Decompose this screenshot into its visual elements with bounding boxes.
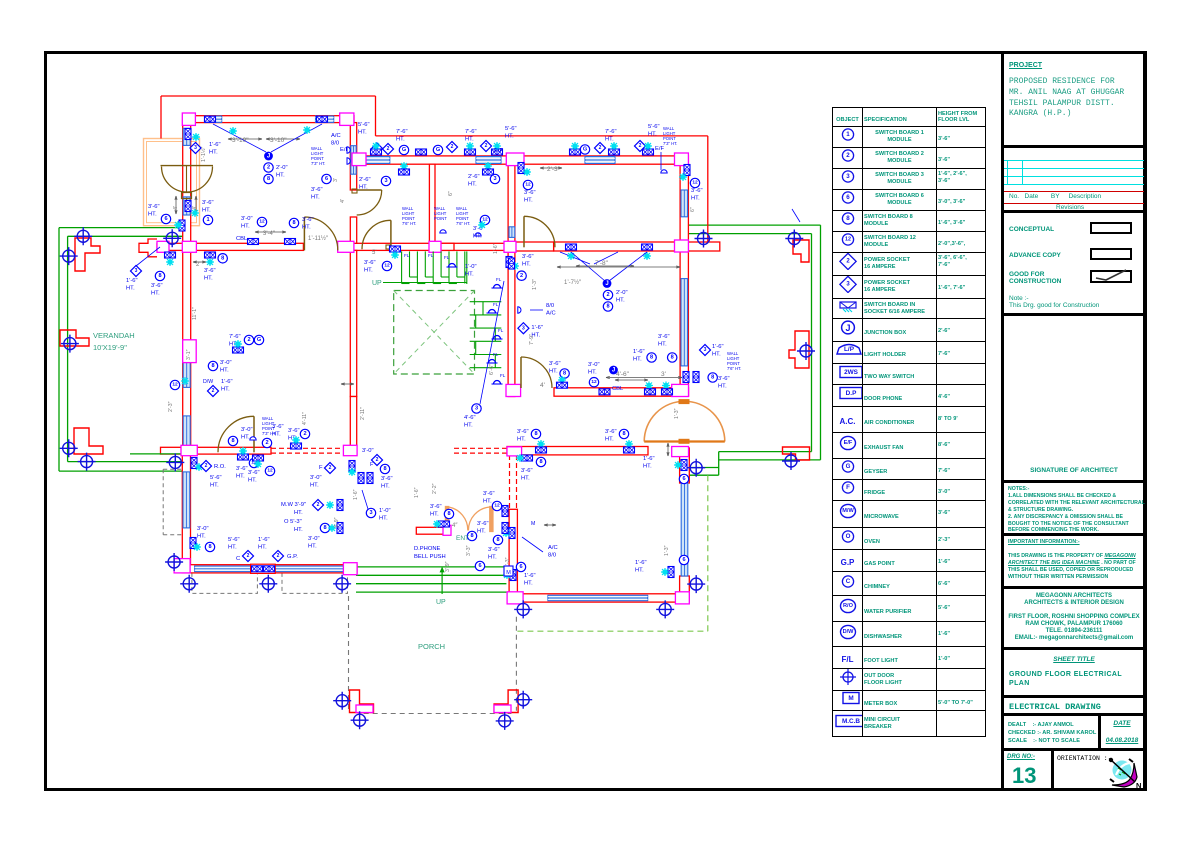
column marker <box>785 230 803 248</box>
fan point <box>537 440 545 448</box>
stair treads lower <box>470 314 502 316</box>
wall: drawing room right <box>680 251 688 396</box>
svg-text:3: 3 <box>135 268 138 274</box>
symbol: switch board 8 <box>218 254 227 263</box>
column marker <box>259 575 277 593</box>
door room A <box>524 216 555 247</box>
symbol: power socket 2 <box>207 385 218 396</box>
legend table <box>832 107 985 737</box>
svg-text:HT.: HT. <box>588 369 597 375</box>
svg-text:BELL PUSH: BELL PUSH <box>414 554 446 560</box>
window drawing right <box>681 279 688 366</box>
wall light point fixture <box>347 158 350 164</box>
svg-text:HT.: HT. <box>524 198 533 204</box>
svg-text:8: 8 <box>563 371 566 377</box>
symbol: power socket 2 <box>371 143 382 154</box>
svg-text:6: 6 <box>325 176 328 182</box>
fan point <box>511 262 519 270</box>
column marker <box>514 691 532 709</box>
fan point <box>166 258 174 266</box>
svg-text:HT.: HT. <box>718 383 727 389</box>
svg-text:12: 12 <box>267 468 273 474</box>
symbol: switch board 8 <box>668 353 677 362</box>
svg-text:A/C: A/C <box>331 133 341 139</box>
left verandah outline <box>59 227 183 229</box>
symbol: switch board 8 <box>289 218 298 227</box>
number box <box>1004 748 1144 788</box>
symbol: switch board 8 <box>208 361 217 370</box>
symbol: switch board 8 <box>380 464 389 473</box>
svg-text:8: 8 <box>211 363 214 369</box>
fan point <box>239 447 247 455</box>
svg-text:12: 12 <box>494 503 500 509</box>
symbol: switch board 3 <box>381 176 390 185</box>
column L2 <box>60 330 89 346</box>
svg-text:HT.: HT. <box>294 527 303 533</box>
symbol: power socket 2 <box>312 499 323 510</box>
column marker <box>60 247 78 265</box>
svg-text:HT.: HT. <box>310 483 319 489</box>
meter box M <box>504 566 513 576</box>
approval box <box>1004 210 1144 313</box>
svg-text:G.P.: G.P. <box>287 554 298 560</box>
svg-text:HT.: HT. <box>483 499 492 505</box>
window-point glyph <box>317 116 328 122</box>
pillar <box>181 445 197 455</box>
svg-text:HT.: HT. <box>202 208 211 214</box>
svg-text:8: 8 <box>231 438 234 444</box>
window lounge left 1 <box>183 359 190 388</box>
symbol: power socket 2 <box>594 142 605 153</box>
column marker <box>782 452 800 470</box>
fan point <box>229 127 237 135</box>
wall light point fixture <box>250 437 256 440</box>
symbol: switch board 6 <box>679 474 688 483</box>
svg-text:HT.: HT. <box>605 437 614 443</box>
svg-text:HT.: HT. <box>468 182 477 188</box>
svg-text:ENT.: ENT. <box>456 535 470 542</box>
svg-text:6: 6 <box>682 476 685 482</box>
wall: top-left room right <box>350 123 356 190</box>
fan point <box>571 142 579 150</box>
svg-text:3’-9″: 3’-9″ <box>334 517 340 528</box>
svg-text:1: 1 <box>206 217 209 223</box>
svg-text:1'-6": 1'-6" <box>126 278 138 284</box>
svg-text:3: 3 <box>493 176 496 182</box>
window-point glyph <box>509 258 515 269</box>
fan point <box>174 221 182 229</box>
svg-text:3’-1″: 3’-1″ <box>186 349 192 360</box>
leader: socket 3 to wall (corridor) <box>480 281 504 404</box>
svg-text:7'6" HT.: 7'6" HT. <box>456 221 470 226</box>
svg-text:UP: UP <box>372 280 382 287</box>
svg-text:8: 8 <box>447 511 450 517</box>
fan point <box>662 382 670 390</box>
svg-text:3'-0": 3'-0" <box>308 536 320 542</box>
svg-text:FL: FL <box>500 373 506 378</box>
column marker <box>656 600 674 618</box>
symbol: switch board 8 <box>531 429 540 438</box>
window left wall lower <box>183 197 190 215</box>
svg-text:12: 12 <box>525 182 531 188</box>
column L1 <box>75 238 100 271</box>
window-point glyph <box>252 566 263 572</box>
door jamb marks <box>352 189 357 193</box>
door drawing-hall <box>521 357 552 388</box>
window-point glyph <box>390 246 401 252</box>
svg-text:HT.: HT. <box>616 297 625 303</box>
symbol: switch board G <box>254 335 263 344</box>
svg-text:HT.: HT. <box>643 464 652 470</box>
symbol: switch board G <box>580 145 589 154</box>
svg-text:3'-0": 3'-0" <box>241 427 253 433</box>
svg-text:8/0: 8/0 <box>331 141 339 147</box>
svg-text:J: J <box>612 367 615 373</box>
svg-text:2: 2 <box>451 144 454 150</box>
symbol: switch board 12 <box>257 217 266 226</box>
svg-text:E/F: E/F <box>655 146 664 152</box>
wall: corridor band <box>157 243 303 250</box>
symbol: switch board 12 <box>480 215 489 224</box>
svg-text:2'-0": 2'-0" <box>616 290 628 296</box>
title block column <box>1001 51 1147 791</box>
symbol: switch board 3 <box>472 404 481 413</box>
pillar <box>429 241 441 252</box>
symbol: switch board 3 <box>366 508 375 517</box>
svg-text:3': 3' <box>333 178 339 182</box>
orange alcove top-left <box>144 139 200 226</box>
symbol: switch board 2 <box>264 163 273 172</box>
svg-text:4'-6": 4'-6" <box>464 415 476 421</box>
symbol: switch board 8 <box>264 174 273 183</box>
extra green step line left <box>130 453 183 455</box>
svg-text:6″: 6″ <box>690 207 696 212</box>
svg-text:3'-6": 3'-6" <box>272 424 284 430</box>
svg-text:2’-11″: 2’-11″ <box>360 407 366 420</box>
svg-text:3'-0": 3'-0" <box>220 360 232 366</box>
svg-text:2: 2 <box>639 143 642 149</box>
svg-text:2: 2 <box>303 431 306 437</box>
window-point glyph <box>492 149 503 155</box>
svg-text:1'-6": 1'-6" <box>712 344 724 350</box>
symbol: switch board 2 <box>517 271 526 280</box>
svg-text:2’-3″: 2’-3″ <box>168 401 174 412</box>
symbol: switch board 12 <box>382 261 391 270</box>
wall: lounge right / hall left <box>350 250 356 396</box>
window-point glyph <box>483 169 494 175</box>
window kitchen bottom 1 <box>195 566 251 572</box>
pillar <box>182 241 196 252</box>
wall: kitchen top <box>161 447 272 454</box>
wall: kitchen bottom <box>182 565 357 573</box>
symbol: switch board 8 <box>708 373 717 382</box>
symbol: switch board 8 <box>155 271 164 280</box>
symbol: switch board 6 <box>161 214 170 223</box>
svg-text:3'-6": 3'-6" <box>549 361 561 367</box>
window W top-left room 1 <box>205 116 222 122</box>
svg-text:F: F <box>319 465 323 471</box>
window-point glyph <box>642 244 653 250</box>
wall light point fixture <box>347 147 350 153</box>
svg-text:8: 8 <box>158 273 161 279</box>
svg-text:M: M <box>506 570 511 576</box>
svg-text:HT.: HT. <box>358 130 367 136</box>
svg-text:7’-9″: 7’-9″ <box>529 334 535 345</box>
svg-text:1’-3″: 1’-3″ <box>532 279 538 290</box>
pillar <box>340 113 354 125</box>
svg-text:HT.: HT. <box>505 134 514 140</box>
svg-text:3'-6": 3'-6" <box>522 254 534 260</box>
svg-text:2: 2 <box>277 553 280 559</box>
svg-text:HT.: HT. <box>126 286 135 292</box>
svg-text:3'-6": 3'-6" <box>311 187 323 193</box>
window-point glyph <box>358 473 364 484</box>
window-point glyph <box>367 473 373 484</box>
svg-text:2: 2 <box>212 388 215 394</box>
window-point glyph <box>502 523 508 534</box>
svg-text:2: 2 <box>387 146 390 152</box>
stair well dashed square <box>394 291 475 375</box>
porch column R <box>494 690 518 713</box>
svg-text:3'-0": 3'-0" <box>362 448 374 454</box>
svg-text:HT.: HT. <box>302 225 311 231</box>
window-point glyph <box>570 149 581 155</box>
fan point <box>292 436 300 444</box>
wall: bottom-right room right <box>680 448 690 483</box>
svg-text:3'-0": 3'-0" <box>197 526 209 532</box>
svg-text:A/C: A/C <box>546 310 556 316</box>
svg-text:6: 6 <box>164 216 167 222</box>
symbol: switch board 8 <box>320 523 329 532</box>
column marker <box>166 453 184 471</box>
svg-text:HT.: HT. <box>605 137 614 143</box>
symbol: switch board G <box>433 145 442 154</box>
svg-text:HT.: HT. <box>241 224 250 230</box>
wall: corridor right <box>508 156 515 397</box>
svg-text:1'-6": 1'-6" <box>209 142 221 148</box>
svg-text:1'-0": 1'-0" <box>379 508 391 514</box>
window-point glyph <box>165 252 176 258</box>
svg-text:4’-11″: 4’-11″ <box>302 412 308 425</box>
svg-text:3'-6": 3'-6" <box>302 217 314 223</box>
window-point glyph <box>205 116 216 122</box>
wall light point fixture <box>475 233 481 236</box>
wall: bottom-right room bottom <box>509 594 688 602</box>
svg-text:6: 6 <box>478 563 481 569</box>
symbol: switch board 6 <box>475 561 484 570</box>
window-point glyph <box>371 149 382 155</box>
porch pillar R <box>494 705 511 713</box>
window-point glyph <box>522 455 533 461</box>
svg-text:3’-9″: 3’-9″ <box>445 561 451 572</box>
svg-text:2: 2 <box>247 337 250 343</box>
svg-text:HT.: HT. <box>473 234 482 240</box>
svg-text:G: G <box>436 147 440 153</box>
fan point <box>610 142 618 150</box>
svg-text:HT.: HT. <box>204 276 213 282</box>
pillar <box>343 563 357 575</box>
svg-text:4': 4' <box>173 206 179 210</box>
pillar <box>675 592 689 604</box>
svg-text:3'-0": 3'-0" <box>588 362 600 368</box>
svg-text:6": 6" <box>448 191 454 196</box>
symbol: power socket 2 <box>242 550 253 561</box>
fan point <box>674 461 682 469</box>
svg-text:4': 4' <box>540 382 545 389</box>
fan point <box>328 524 336 532</box>
ceiling leader lines top-left room <box>213 124 266 152</box>
svg-text:3'-6": 3'-6" <box>605 429 617 435</box>
window left wall upper <box>183 128 190 145</box>
window-point glyph <box>668 567 674 578</box>
dimension arrows <box>228 138 262 140</box>
fan point <box>348 468 356 476</box>
project box <box>1004 54 1144 145</box>
svg-text:2: 2 <box>599 145 602 151</box>
fan point <box>493 142 501 150</box>
svg-text:HT.: HT. <box>248 478 257 484</box>
svg-text:M: M <box>531 521 535 527</box>
svg-text:HT.: HT. <box>465 272 474 278</box>
svg-text:5'-6": 5'-6" <box>505 126 517 132</box>
pillar <box>174 559 190 573</box>
foot light fixture FL <box>487 310 498 314</box>
symbol: switch board 2 <box>300 429 309 438</box>
window-point glyph <box>285 239 296 245</box>
foot light fixture FL <box>492 381 503 384</box>
svg-text:1'-6": 1'-6" <box>524 573 536 579</box>
symbol: switch board 12 <box>523 180 532 189</box>
column marker <box>351 711 369 729</box>
window-point glyph <box>190 538 196 549</box>
svg-text:4': 4' <box>340 199 346 203</box>
door toilet1 <box>357 190 382 215</box>
window-point glyph <box>502 506 508 517</box>
window-point glyph <box>684 165 690 176</box>
window-point glyph <box>599 389 610 395</box>
firm box <box>1004 586 1144 647</box>
wall: corridor left end steps <box>139 239 157 257</box>
svg-text:3'-6": 3'-6" <box>517 429 529 435</box>
svg-text:1’-3″: 1’-3″ <box>664 545 670 556</box>
foot light fixture FL <box>487 360 498 364</box>
svg-text:3'-6": 3'-6" <box>151 283 163 289</box>
svg-text:8: 8 <box>650 355 653 361</box>
symbol: switch board 8 <box>205 542 214 551</box>
wall: bottom-right room top <box>507 447 648 455</box>
symbol: power socket 2 <box>272 550 283 561</box>
wall: toilets & top-right top band <box>354 156 688 164</box>
symbol: switch board 8 <box>228 436 237 445</box>
svg-text:J: J <box>605 281 608 287</box>
svg-text:F: F <box>370 462 373 468</box>
window lounge left 2 <box>183 416 190 446</box>
pillar <box>157 241 169 252</box>
svg-text:FL: FL <box>428 253 434 258</box>
svg-text:J: J <box>267 153 270 159</box>
wall: bottom-right room left <box>509 509 517 603</box>
fan point <box>326 501 334 509</box>
svg-text:3: 3 <box>384 178 387 184</box>
svg-text:7'3" HT.: 7'3" HT. <box>311 161 325 166</box>
wall: left exterior lower (lounge+kitchen) <box>183 250 191 454</box>
svg-text:HT.: HT. <box>220 368 229 374</box>
window-point glyph <box>179 220 185 231</box>
important info box <box>1004 533 1144 586</box>
svg-text:1’-11½″: 1’-11½″ <box>308 235 329 242</box>
fan point <box>191 209 199 217</box>
svg-text:2’-2″: 2’-2″ <box>432 483 438 494</box>
svg-text:3'-6": 3'-6" <box>430 504 442 510</box>
svg-text:8: 8 <box>470 533 473 539</box>
symbol: switch board 6 <box>516 562 525 571</box>
svg-text:5': 5' <box>372 250 376 256</box>
dashed wall kitchen top <box>271 447 343 449</box>
svg-text:2: 2 <box>247 553 250 559</box>
symbol: switch board 6 <box>322 174 331 183</box>
svg-text:HT.: HT. <box>396 137 405 143</box>
svg-text:3: 3 <box>522 325 525 331</box>
svg-text:5'-6": 5'-6" <box>210 475 222 481</box>
fan point <box>558 376 566 384</box>
kitchen sink sill <box>251 564 276 573</box>
symbol: switch board 12 <box>690 178 699 187</box>
window-point glyph <box>465 149 476 155</box>
column marker <box>333 692 351 710</box>
svg-text:G: G <box>583 147 587 153</box>
svg-text:8: 8 <box>496 537 499 543</box>
svg-text:3'-6": 3'-6" <box>658 334 670 340</box>
entrance canopy arcs <box>449 507 468 531</box>
symbol: switch board 1 <box>203 215 212 224</box>
svg-text:FL: FL <box>444 255 450 260</box>
svg-text:7'-6": 7'-6" <box>605 129 617 135</box>
svg-text:FL: FL <box>493 352 499 357</box>
symbol: power socket 2 <box>200 460 211 471</box>
column marker <box>78 453 96 471</box>
symbol: switch board 8 <box>619 429 628 438</box>
svg-text:1’-6″: 1’-6″ <box>493 243 499 254</box>
symbol: switch board 12 <box>249 458 258 467</box>
fan point <box>567 252 575 260</box>
pillar <box>338 241 354 252</box>
wall: left exterior <box>183 123 191 244</box>
fan point <box>643 252 651 260</box>
svg-text:HT.: HT. <box>633 356 642 362</box>
svg-text:11’-1″: 11’-1″ <box>192 307 198 320</box>
window-point glyph <box>645 389 656 395</box>
svg-text:12: 12 <box>692 180 698 186</box>
svg-text:10'X19'-9": 10'X19'-9" <box>93 343 127 352</box>
wall: room A bottom band <box>554 242 720 251</box>
pillar <box>343 445 357 455</box>
svg-text:3’-3″: 3’-3″ <box>466 545 472 556</box>
svg-text:2: 2 <box>265 440 268 446</box>
symbol: junction box J <box>609 366 618 375</box>
svg-text:HT.: HT. <box>210 483 219 489</box>
door lounge-corridor <box>304 217 337 250</box>
column marker <box>74 227 92 245</box>
ceiling leader lines drawing room <box>560 252 590 264</box>
svg-text:8: 8 <box>671 355 674 361</box>
window-point glyph <box>557 382 568 388</box>
svg-text:3'-6": 3'-6" <box>691 188 703 194</box>
svg-text:FL: FL <box>496 277 502 282</box>
window-point glyph <box>510 570 516 581</box>
symbol: switch board 8 <box>493 535 502 544</box>
pillar <box>352 153 366 166</box>
svg-text:HT.: HT. <box>276 173 285 179</box>
